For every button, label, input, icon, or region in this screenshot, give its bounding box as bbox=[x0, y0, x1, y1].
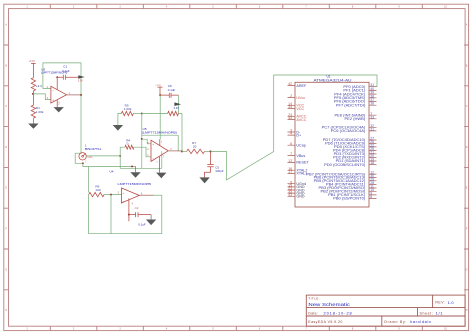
V- pin + ground below U5 bbox=[159, 157, 161, 173]
svg-text:GND: GND bbox=[296, 195, 305, 199]
svg-text:U5: U5 bbox=[143, 127, 147, 131]
resistor R1a bbox=[31, 78, 35, 91]
svg-text:G: G bbox=[5, 268, 7, 271]
svg-text:VBus: VBus bbox=[296, 154, 305, 158]
svg-text:PE2 (HWB): PE2 (HWB) bbox=[345, 116, 366, 121]
svg-text:34: 34 bbox=[288, 105, 292, 109]
wire to R7 bbox=[182, 150, 187, 152]
wire into + input bbox=[142, 139, 151, 144]
capacitor C2 bbox=[129, 212, 151, 217]
capacitor C1 bbox=[57, 75, 78, 80]
svg-text:(LMP7715MA/NOPB): (LMP7715MA/NOPB) bbox=[142, 130, 178, 134]
left pin stubs bbox=[288, 86, 296, 197]
box left bbox=[88, 166, 90, 192]
svg-text:Date:: Date: bbox=[308, 311, 318, 315]
netflag arrow 3.3V bbox=[78, 75, 84, 78]
svg-text:2018-10-28: 2018-10-28 bbox=[324, 311, 352, 316]
svg-text:D+: D+ bbox=[296, 133, 301, 137]
svg-text:H: H bbox=[5, 309, 7, 312]
vertical from C6 to R8 right bbox=[177, 95, 179, 113]
wire R6 to + input bbox=[104, 194, 121, 196]
ground below C5 bbox=[199, 177, 209, 183]
svg-text:C2: C2 bbox=[135, 206, 139, 210]
svg-text:−: − bbox=[152, 157, 154, 161]
ground left of R5 bbox=[118, 114, 121, 126]
wire BNC shield to gnd arrow bbox=[89, 165, 136, 167]
svg-text:TITLE:: TITLE: bbox=[308, 296, 319, 300]
output stub bbox=[67, 94, 82, 96]
svg-text:+: + bbox=[52, 98, 54, 102]
V- pin to C2 bbox=[128, 198, 130, 214]
svg-text:31: 31 bbox=[370, 127, 374, 131]
wire R4 left loop to output bbox=[120, 147, 162, 168]
connector J1 BNCPTH bbox=[79, 143, 121, 164]
title block bbox=[306, 295, 465, 326]
wire to node bbox=[133, 113, 141, 115]
svg-text:42: 42 bbox=[288, 82, 292, 86]
capacitor C5 bbox=[210, 151, 212, 164]
svg-text:3.3V: 3.3V bbox=[78, 80, 83, 83]
svg-text:+: + bbox=[123, 191, 125, 195]
svg-text:BNCPTH: BNCPTH bbox=[85, 147, 101, 151]
svg-text:8: 8 bbox=[370, 195, 372, 199]
svg-text:H: H bbox=[466, 309, 468, 312]
V+ pin red bbox=[159, 139, 161, 145]
svg-text:LMP7715MF/NOPB: LMP7715MF/NOPB bbox=[118, 182, 151, 186]
right pin stubs bbox=[369, 87, 377, 199]
svg-text:43: 43 bbox=[288, 193, 292, 197]
svg-text:100: 100 bbox=[95, 188, 100, 192]
ground bbox=[32, 118, 34, 123]
vertical from R8 down to output node bbox=[181, 114, 183, 152]
svg-text:D: D bbox=[5, 146, 7, 149]
wire BNC node to U4 box bbox=[83, 163, 89, 166]
node junction bbox=[32, 93, 34, 95]
svg-text:7: 7 bbox=[290, 152, 292, 156]
resistor R5 bbox=[121, 111, 133, 115]
svg-text:18: 18 bbox=[370, 161, 374, 165]
svg-text:−: − bbox=[123, 199, 125, 203]
svg-text:GND: GND bbox=[87, 157, 92, 159]
svg-text:EasyEDA V5.9.20: EasyEDA V5.9.20 bbox=[308, 320, 342, 324]
U1 body bbox=[295, 82, 369, 207]
wire feedback box U3 bbox=[43, 63, 81, 95]
svg-text:3.3V: 3.3V bbox=[174, 106, 180, 110]
svg-text:13: 13 bbox=[288, 159, 292, 163]
wire box top bbox=[142, 134, 178, 136]
resistor R7 bbox=[187, 149, 205, 153]
capacitor C6 bbox=[160, 93, 178, 98]
wire R8 right to vertical bbox=[178, 113, 182, 115]
power flag +3.3V (top left) bbox=[31, 63, 36, 77]
resistor R8 bbox=[168, 111, 179, 115]
svg-text:Drawn By:: Drawn By: bbox=[384, 320, 406, 324]
output stub bbox=[139, 194, 153, 196]
svg-text:33: 33 bbox=[370, 115, 374, 119]
wire C6 down to U5 bbox=[159, 95, 161, 139]
power flag above C6 bbox=[157, 87, 162, 95]
svg-text:AREF: AREF bbox=[296, 84, 307, 88]
svg-text:PF7 (ADC7/TDI): PF7 (ADC7/TDI) bbox=[336, 102, 366, 107]
netflag arrow 3.3V bbox=[174, 102, 181, 106]
svg-text:330pF: 330pF bbox=[215, 169, 224, 173]
svg-text:0: 0 bbox=[127, 142, 129, 146]
svg-text:haroldalv: haroldalv bbox=[410, 319, 431, 324]
svg-text:UCap: UCap bbox=[296, 144, 305, 148]
svg-text:D: D bbox=[466, 146, 468, 149]
svg-text:2: 2 bbox=[290, 94, 292, 98]
V- pin + ground bbox=[56, 100, 58, 107]
resistor R4 bbox=[125, 145, 134, 149]
svg-text:UVcc: UVcc bbox=[296, 96, 305, 100]
svg-text:U4: U4 bbox=[110, 169, 114, 173]
svg-text:PC6 (OC3A/OC4A): PC6 (OC3A/OC4A) bbox=[331, 128, 366, 133]
resistor R6 bbox=[89, 192, 104, 196]
svg-text:20: 20 bbox=[193, 145, 197, 149]
svg-text:+3.3V: +3.3V bbox=[155, 85, 161, 87]
svg-text:0.1uF: 0.1uF bbox=[62, 69, 70, 73]
svg-text:RESET: RESET bbox=[296, 161, 309, 165]
svg-text:+3.3V: +3.3V bbox=[29, 60, 36, 63]
left pin numbers bbox=[288, 82, 292, 197]
svg-text:1.0: 1.0 bbox=[448, 300, 455, 305]
svg-text:AVCC: AVCC bbox=[296, 118, 306, 122]
svg-text:17: 17 bbox=[288, 170, 292, 174]
svg-text:PB0 (SS/PCINT0): PB0 (SS/PCINT0) bbox=[333, 196, 366, 201]
svg-text:C1: C1 bbox=[63, 64, 67, 68]
wire R4 right to - input bbox=[134, 147, 151, 157]
svg-text:Sheet:: Sheet: bbox=[420, 311, 433, 315]
svg-text:ATMEGA32U4-AU: ATMEGA32U4-AU bbox=[314, 78, 352, 83]
svg-text:+: + bbox=[152, 143, 154, 147]
svg-text:1.00k: 1.00k bbox=[36, 110, 44, 114]
svg-text:0.1uF: 0.1uF bbox=[138, 223, 146, 227]
op-amp U5 bbox=[151, 140, 168, 161]
svg-text:C: C bbox=[466, 105, 468, 108]
svg-text:−: − bbox=[52, 89, 54, 93]
wire to op-amp + input bbox=[33, 94, 51, 100]
svg-text:1/1: 1/1 bbox=[436, 311, 443, 316]
svg-text:44: 44 bbox=[288, 116, 292, 120]
svg-text:C: C bbox=[5, 105, 7, 108]
svg-text:+3.3: +3.3 bbox=[36, 84, 42, 88]
feedback loop below bbox=[110, 195, 112, 234]
right pin numbers bbox=[370, 83, 374, 199]
svg-text:VCC: VCC bbox=[296, 107, 304, 111]
ground right of C2 bbox=[150, 215, 152, 220]
long wire with V dip to MCU PF0 bbox=[211, 75, 378, 180]
svg-text:PD0 (OC0B/SCL/INT0): PD0 (OC0B/SCL/INT0) bbox=[324, 162, 366, 167]
op-amp U4 bbox=[121, 188, 139, 203]
output junction bbox=[80, 94, 82, 96]
node after R7 bbox=[205, 150, 211, 152]
svg-text:1.00k: 1.00k bbox=[124, 107, 132, 111]
svg-text:0.1uF: 0.1uF bbox=[168, 88, 176, 92]
svg-text:6: 6 bbox=[290, 142, 292, 146]
wire divider node down to + input bbox=[141, 114, 143, 169]
wire node to R8 bbox=[141, 113, 167, 115]
V+ pin bbox=[56, 77, 58, 89]
svg-text:G: G bbox=[466, 268, 468, 271]
output stub bbox=[168, 150, 182, 152]
svg-text:36: 36 bbox=[370, 102, 374, 106]
svg-text:4: 4 bbox=[290, 132, 292, 136]
svg-text:New Schematic: New Schematic bbox=[308, 302, 350, 308]
resistor R1 bbox=[31, 94, 35, 118]
wire BNC to divider node bbox=[86, 155, 120, 157]
op-amp U3 bbox=[51, 86, 67, 103]
svg-text:REV:: REV: bbox=[435, 301, 445, 305]
